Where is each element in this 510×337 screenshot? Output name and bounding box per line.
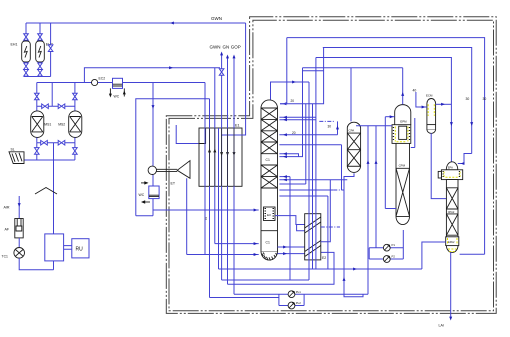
wire C1 liquid out 180	[279, 179, 347, 181]
condenser EPA tab	[438, 171, 441, 178]
wire E1 to pump loop feed	[210, 297, 279, 299]
wire riser to dashdot	[337, 121, 339, 134]
wire waste N2 collect	[222, 279, 309, 281]
heater EH1	[22, 41, 31, 62]
wire GOP collect	[234, 293, 368, 295]
wire dome top riser	[271, 82, 310, 100]
arrow liquid out	[283, 178, 287, 181]
wire C1 feed 156	[279, 68, 302, 157]
valve MS1 drain	[35, 148, 40, 155]
arrow WC2 water in	[144, 181, 148, 184]
wire EPM side feed	[385, 116, 394, 118]
pump PL2	[288, 302, 295, 309]
wire EH bypass upper	[50, 23, 52, 45]
arrow air intake	[18, 203, 21, 207]
wire E1 to C1 bottom feed	[187, 254, 259, 256]
svg-text:RU: RU	[76, 247, 84, 253]
svg-text:GN: GN	[223, 45, 230, 50]
column CAr dome	[446, 162, 458, 170]
wire silencer header	[24, 159, 75, 161]
wire C1 top vapour	[280, 38, 287, 104]
wire dash-dot link	[319, 120, 334, 122]
arrows reflux double	[283, 116, 287, 119]
svg-text:EH1: EH1	[11, 43, 18, 47]
arrow WC1 water out	[109, 94, 112, 98]
svg-text:E2: E2	[322, 256, 326, 260]
wire EH bottom header	[24, 76, 51, 78]
wire MS top cross header	[37, 105, 75, 107]
wire C1 sump out upper	[278, 246, 305, 248]
wire pump manifold	[368, 248, 370, 259]
cold box boundary inner line	[169, 20, 494, 311]
filter AF	[15, 219, 23, 238]
svg-text:GWN: GWN	[211, 16, 222, 21]
svg-text:30: 30	[466, 97, 470, 101]
arrow CPA riser	[343, 277, 346, 281]
arrow LAr	[449, 317, 452, 321]
wire EH2 top stub	[39, 23, 41, 34]
wire C1 reflux double upper	[279, 117, 316, 120]
condenser EPM ticks	[393, 128, 410, 140]
condenser E3 in C1	[264, 207, 276, 221]
wire E1 stream b	[209, 99, 211, 298]
svg-text:C1: C1	[266, 241, 270, 245]
cooler WC2 water in	[141, 182, 148, 184]
svg-text:EPM: EPM	[400, 120, 407, 124]
wire EH bypass lower	[50, 52, 52, 77]
wire drop 305	[305, 104, 307, 184]
svg-text:CPM: CPM	[399, 163, 406, 167]
arrow C1 feed 153	[283, 152, 287, 155]
valve EH bypass	[48, 45, 53, 52]
vessel ECM yellow	[428, 104, 434, 116]
wire header L4	[303, 67, 403, 69]
wire GN collect	[228, 252, 335, 284]
valve EH1 top	[24, 34, 29, 41]
wire C1 feed 136	[279, 134, 337, 136]
svg-text:GOP: GOP	[231, 45, 241, 50]
condenser EPA yellow	[444, 172, 460, 179]
cooler WC2 box	[149, 186, 159, 199]
evaporator box in CAr	[446, 237, 459, 246]
arrow C1 feed 156	[283, 155, 287, 158]
condenser EPM yellow	[395, 127, 408, 142]
wire RU couplings	[64, 246, 72, 250]
svg-text:EPA: EPA	[448, 166, 453, 170]
wire E1 stream e waste N2	[221, 135, 223, 280]
svg-text:PL2: PL2	[296, 301, 301, 305]
arrow into C1 dome	[283, 102, 287, 105]
wire CPA bottom elbow	[344, 173, 363, 296]
wire E1 stream a	[204, 83, 206, 255]
arrow booster line	[152, 105, 155, 109]
machine box	[45, 234, 64, 261]
sump hatch C1	[262, 253, 277, 261]
svg-text:30: 30	[328, 125, 332, 129]
wire E1 to C1 mid feed	[215, 243, 259, 245]
arrow L3 branch down	[450, 122, 453, 126]
wire C1 side 196	[279, 195, 328, 197]
cooler WC1 tubes	[113, 84, 122, 86]
arrow C1 feed 136	[283, 133, 287, 136]
svg-text:AF: AF	[5, 228, 10, 232]
cold box boundary outer line	[166, 17, 496, 314]
E1 interior passes black	[210, 128, 235, 186]
wire MS2 top leg	[74, 83, 76, 111]
wire CAr feed	[422, 242, 446, 269]
valve EH1 bottom upper	[24, 63, 29, 70]
wire E1 stream d	[218, 128, 220, 269]
column CPM bottom dome	[396, 216, 410, 224]
svg-text:MS1: MS1	[44, 123, 51, 127]
svg-text:E3: E3	[267, 213, 271, 217]
evaporator yellow	[448, 238, 458, 244]
vessel EPM dome	[395, 105, 411, 125]
wire EPM feed drop	[385, 117, 396, 209]
exchanger E1 notch	[199, 128, 206, 144]
column CPA shell	[347, 122, 360, 172]
turbine ET shaft	[157, 169, 178, 171]
svg-text:SL: SL	[11, 148, 15, 152]
wire CAr condenser return	[460, 253, 485, 255]
wire turbine feed to C1	[153, 209, 259, 211]
valve MS2 drain	[73, 148, 78, 155]
wire LAr product	[450, 252, 452, 318]
silencer SL	[9, 152, 24, 164]
wire CPM sump to pumps	[402, 230, 404, 259]
wire GN product	[227, 58, 229, 284]
wire C1 sump out lower	[278, 253, 305, 255]
wire WC2 bottom link	[136, 215, 153, 217]
wire drop 327	[327, 196, 329, 269]
wire waste N2 riser	[222, 23, 246, 135]
cooler WC1 water legs	[110, 88, 124, 96]
valve MS2 top	[73, 93, 78, 100]
wire long transfer line	[219, 268, 422, 270]
wire ECM vapour out	[436, 103, 452, 105]
wire E3 liquid out	[297, 225, 305, 231]
condenser EPM outer box	[392, 125, 411, 144]
wire EH1 top stub	[25, 23, 27, 34]
wire arrow on regen header	[170, 22, 174, 25]
condenser EPA ticks	[443, 172, 461, 177]
exchanger E2 diagonals	[305, 217, 321, 257]
wire CPM right stub	[411, 118, 415, 148]
vent caret	[35, 188, 57, 195]
compressor TC1	[14, 248, 25, 259]
wire condensate header	[356, 125, 392, 127]
wire pump line 1	[369, 247, 403, 249]
wire main air header	[37, 82, 205, 84]
wire MS1 drain lower	[36, 155, 38, 161]
pump P2	[383, 256, 390, 263]
wire C1 side 190	[279, 189, 333, 191]
wire CAr dome feed	[458, 154, 472, 164]
wire booster line down	[152, 83, 154, 216]
cooler WC2 tubes	[149, 195, 159, 196]
wire header L2	[323, 48, 472, 154]
svg-text:WC: WC	[139, 193, 145, 197]
wire pump line 2	[369, 258, 403, 260]
wire top regen header	[26, 22, 246, 24]
valve MS top cross left	[42, 104, 49, 109]
svg-text:PL1: PL1	[296, 290, 301, 294]
svg-text:E1: E1	[235, 124, 240, 128]
arrow C1 mid feed	[254, 242, 258, 245]
svg-text:WC: WC	[114, 95, 120, 99]
valve EH1 bottom lower	[24, 70, 29, 77]
svg-text:C1: C1	[266, 158, 270, 162]
wire waste N2 from C1	[279, 176, 290, 178]
wire ECM liquid down	[431, 133, 446, 198]
arrows in E1	[208, 149, 211, 153]
arrow GN	[226, 55, 229, 59]
wire jog upper	[303, 70, 324, 72]
wire MS bottom cross header	[37, 138, 75, 143]
wire MS centre feed upper	[51, 83, 53, 107]
wire E2 stub right mid	[321, 180, 331, 242]
adsorber MS1	[31, 111, 44, 138]
svg-text:EC2: EC2	[99, 77, 106, 81]
wire CPA top feed	[350, 68, 352, 122]
arrow riser left a	[367, 160, 370, 164]
arrow L2 branch down	[470, 122, 473, 126]
svg-text:20: 20	[291, 99, 295, 103]
wire E3 vapour out	[275, 216, 305, 225]
unit RU box	[72, 239, 89, 258]
wire header L3	[316, 58, 452, 170]
wire riser after cooler	[136, 99, 210, 216]
svg-text:20: 20	[292, 131, 296, 135]
wire TC1 discharge	[19, 258, 53, 270]
svg-text:P1: P1	[392, 243, 396, 247]
wire MS2 drain leg	[74, 143, 76, 148]
svg-text:EPA2: EPA2	[448, 240, 455, 244]
wire E1 stream c	[214, 68, 216, 244]
condenser EPA box	[441, 170, 462, 180]
blower EC2	[92, 79, 98, 85]
vessel ECM	[427, 98, 436, 133]
wire E2 stub right upper	[321, 226, 340, 228]
turbine ET circle	[148, 166, 156, 174]
wire MS1 drain leg	[36, 143, 38, 148]
wire header L1	[287, 38, 485, 255]
column CPM shell	[396, 143, 410, 216]
svg-text:AIR: AIR	[4, 206, 10, 210]
valve GWN	[219, 69, 224, 76]
wire MS1 top leg	[36, 83, 38, 111]
wire arrow regen branch	[169, 66, 173, 69]
valve EH2 bottom lower	[38, 70, 43, 77]
svg-text:ECM: ECM	[426, 94, 433, 98]
heater EH2	[36, 41, 45, 62]
svg-text:GWN: GWN	[210, 45, 221, 50]
cooler WC2 water out	[143, 201, 150, 203]
svg-text:ET: ET	[171, 182, 176, 186]
valve MS bottom cross right	[58, 140, 65, 145]
arrow WC2 water out	[141, 200, 145, 203]
wire C1 feed 153	[279, 154, 298, 157]
pump P1	[383, 244, 390, 251]
sump yellow CAr	[448, 249, 457, 252]
adsorber MS2	[69, 111, 82, 138]
arrow GWN	[220, 52, 223, 56]
arrow waste N2 from C1	[283, 175, 287, 178]
wire drop 341	[341, 145, 343, 190]
wire dashdot 190	[333, 189, 344, 191]
arrow riser	[336, 126, 339, 130]
wire C1 side 184	[279, 183, 305, 185]
arrow riser left b	[375, 160, 378, 164]
turbine ET cone	[177, 161, 190, 179]
valve EH2 top	[38, 34, 43, 41]
column CPM internals	[396, 168, 410, 216]
arrow EPM dome vapour	[401, 92, 404, 96]
wire ECM feed	[416, 92, 427, 107]
wire waste N2 riser from C1	[289, 177, 291, 280]
exchanger E2 box	[305, 214, 321, 260]
svg-text:P2: P2	[392, 254, 396, 258]
exchanger E1 box	[199, 128, 242, 186]
wire air intake	[18, 196, 20, 219]
wire pump loop right	[303, 294, 305, 305]
svg-text:CPA2: CPA2	[448, 210, 455, 214]
svg-text:40: 40	[413, 89, 417, 93]
svg-text:MS2: MS2	[58, 123, 65, 127]
wire pump loop bottom	[279, 305, 304, 307]
column C1 shell	[261, 100, 278, 260]
wire riser left b	[375, 126, 377, 248]
cooler WC1 box	[113, 78, 123, 88]
arrow CAr dome feed	[461, 162, 465, 165]
wire MS centre line down	[53, 143, 55, 270]
svg-text:TC1: TC1	[2, 255, 9, 259]
wire E2 pass 2	[312, 104, 314, 269]
valve MS1 top	[35, 93, 40, 100]
wire EPM dome vapour	[402, 68, 404, 105]
arrow GOP	[233, 55, 236, 59]
wire GOP product	[233, 58, 235, 294]
arrow sump out upper	[283, 246, 287, 249]
wire ET air to E1	[176, 125, 199, 144]
arrow C1 bottom feed	[254, 253, 258, 256]
wire GWN product	[221, 55, 223, 136]
svg-text:c3: c3	[204, 217, 208, 220]
tray line C1	[261, 230, 278, 232]
wire EH2 bottom stub	[39, 62, 41, 63]
column CAr shell	[446, 180, 458, 253]
arrow turbine feed	[254, 209, 258, 212]
condenser EPM inner box	[399, 126, 407, 139]
svg-text:CPA: CPA	[349, 129, 355, 133]
valve EH2 bottom upper	[38, 63, 43, 70]
arrow sump out lower	[283, 252, 287, 255]
svg-text:LAr: LAr	[439, 324, 445, 328]
wire AF to TC1	[18, 238, 20, 248]
arrow long transfer line	[353, 268, 357, 271]
wire C1 side 144	[279, 144, 341, 146]
svg-text:30: 30	[483, 97, 487, 101]
valve MS bottom cross left	[41, 140, 48, 145]
arrow EPM side feed	[390, 115, 394, 118]
arrow ECM vapour out	[441, 103, 445, 106]
pump PL1	[288, 291, 295, 298]
wire regen branch	[84, 68, 220, 83]
arrow WC1 water in	[123, 91, 126, 95]
wire EH1 bottom stub	[25, 62, 27, 63]
wire C1 dome side feed	[280, 48, 324, 104]
arrow ECM feed	[422, 106, 426, 109]
wire riser left a	[367, 126, 369, 295]
valve MS top cross right	[58, 104, 65, 109]
wire MS2 drain lower	[74, 155, 76, 161]
wire ET cone drain	[186, 178, 188, 254]
arrow dome header	[292, 81, 296, 84]
wire pump loop top	[278, 294, 280, 305]
wire E2 pass 1	[308, 82, 310, 280]
wire E2 pass 3	[315, 58, 317, 270]
